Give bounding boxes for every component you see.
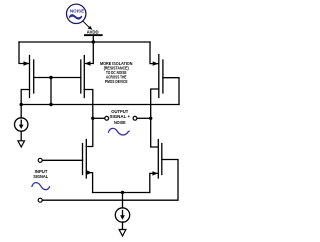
current source I1 arrow shaft [20,120,22,127]
transistor M4 source arrow [87,170,92,174]
noise bubble circle [67,4,86,23]
transistor M3 channel [158,55,160,98]
junction dot tail [121,191,124,194]
wire below tail current source [122,222,124,230]
current source I2 arrow shaft [122,211,124,218]
junction dot gate tap top [49,76,52,79]
wire left current source drop [20,105,22,119]
output terminal circle right [133,116,137,120]
transistor M2 gate plate [80,60,82,93]
AVDD supply bar [84,34,103,36]
noise bubble squiggle [69,14,83,20]
svg-text:SIGNAL +: SIGNAL + [110,114,131,119]
wire M4 gate to input terminal [42,159,82,161]
input signal sine [32,183,50,190]
wire tail drop to current source [122,193,124,209]
wire bus riser to M3 gate [163,78,179,105]
output signal sine [108,128,130,135]
current source I1 arrowhead [19,125,24,129]
ground arrow below I1 [18,141,25,147]
input terminal circle upper [38,158,42,162]
input terminal circle lower [38,198,42,202]
transistor M4 source wire [86,173,92,193]
wire below bias current source [20,131,22,141]
transistor M2 (right PMOS of pair) channel [83,56,85,98]
wire output left segment [93,117,105,119]
transistor M2 drain wire down to output node [84,90,93,147]
noise arrow to AVDD [83,21,89,27]
wire M5 drain from M3 drain and output node [151,89,159,147]
transistor M1 drain wire [21,90,29,105]
wire AVDD stub [92,35,94,42]
transistor M5 source wire [150,173,158,192]
wire gate bus M1-M2 [34,77,81,79]
ground arrow below I2 [119,230,126,237]
svg-text:AVDD: AVDD [87,29,99,34]
transistor M2 source wire from AVDD [85,42,93,64]
output terminal circle left [105,116,109,120]
wire tail rail [93,192,150,194]
transistor M4 (left NMOS) channel [85,140,87,179]
wire gate bus center tap [50,78,52,105]
svg-text:NOISE: NOISE [70,9,85,14]
junction dot output right [149,117,152,120]
junction dot AVDD-rail [92,40,95,43]
transistor M3 source arrow [153,61,159,65]
svg-text:PMOS DEVICE: PMOS DEVICE [105,79,128,84]
wire top AVDD rail [19,41,150,43]
svg-text:NOISE: NOISE [114,120,126,125]
transistor M1 (left PMOS) source wire [19,42,29,64]
transistor M3 (top right PMOS) source wire [150,42,158,64]
current source I2 (tail) circle [115,208,129,222]
transistor M2 source arrow [85,61,91,65]
transistor M1 gate plate [33,60,35,93]
junction dot M1 drain / bias node [20,103,23,106]
wire M5 gate loop to lower input terminal [42,160,178,201]
current source I1 (bias) circle [15,118,28,131]
junction dot gate tap bottom [49,103,52,106]
wire output right segment [137,117,151,119]
wire mirror bus horizontal [21,104,179,106]
transistor M1 channel [29,56,31,98]
svg-text:SIGNAL: SIGNAL [33,174,48,179]
transistor M5 gate plate [161,144,163,175]
transistor M4 gate plate [82,144,84,175]
transistor M3 gate plate [162,60,164,93]
junction dot output left [91,117,94,120]
transistor M5 source arrow [152,171,158,175]
transistor M5 (right NMOS) channel [157,140,159,179]
current source I2 arrowhead [120,215,125,220]
transistor M1 source arrow [24,61,30,65]
